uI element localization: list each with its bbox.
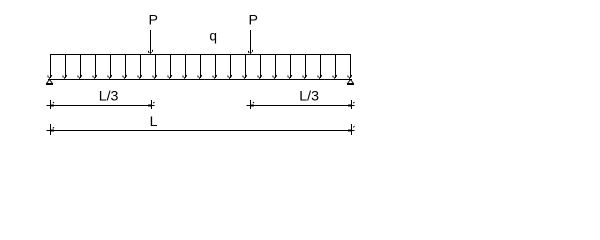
svg-text:L: L xyxy=(150,114,158,130)
svg-text:P: P xyxy=(149,13,158,29)
svg-text:q: q xyxy=(209,29,217,44)
svg-text:L/3: L/3 xyxy=(99,89,119,105)
svg-text:L/3: L/3 xyxy=(299,89,319,105)
svg-text:P: P xyxy=(249,13,258,29)
